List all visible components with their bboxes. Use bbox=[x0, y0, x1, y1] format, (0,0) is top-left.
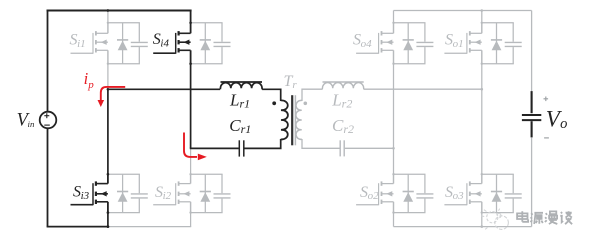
label Si2 bbox=[155, 184, 172, 202]
wire: left bus upper (Vin+ to top rail) bbox=[47, 11, 49, 112]
wire: Si3 cell bottom bus bbox=[108, 212, 140, 214]
wire: input bottom rail gray segment bbox=[108, 226, 191, 228]
wire: So2 cell bottom bus bbox=[394, 212, 426, 214]
watermark char 4 (tan) bbox=[560, 211, 572, 224]
label So2 bbox=[360, 184, 379, 202]
capacitor Cr1 bbox=[239, 140, 244, 156]
transistor Si2 bbox=[153, 174, 190, 213]
current arrow at node B (elbow down-right) bbox=[184, 133, 207, 161]
wire: Cr1 to node B bbox=[190, 147, 239, 149]
capacitor Cr2 bbox=[340, 140, 344, 156]
wire: Lr2 to leg So1/So3 bbox=[364, 88, 482, 90]
wire: Si1 drain feed bbox=[107, 11, 109, 23]
wire: So4 cell bottom bus bbox=[394, 63, 426, 65]
wire: Si1 cell bottom bus bbox=[108, 63, 140, 65]
wire: Si2 cell top bus bbox=[191, 173, 223, 175]
voltage source Vin bbox=[40, 112, 57, 129]
body diode of Si2 bbox=[200, 174, 211, 212]
parallel capacitor of So2 bbox=[416, 174, 433, 212]
wire: So1 cell top bus bbox=[482, 22, 514, 24]
wire: secondary winding bottom to Cr2 bbox=[302, 139, 340, 148]
wire: Si1 source to node A bbox=[107, 64, 109, 90]
wire: output leg B mid bbox=[481, 64, 483, 175]
parallel capacitor of So1 bbox=[505, 23, 522, 64]
wire: output cap to bottom rail bbox=[531, 137, 533, 226]
secondary polarity dot bbox=[304, 102, 308, 106]
parallel capacitor of So3 bbox=[505, 174, 522, 212]
wire: output top rail bbox=[394, 10, 532, 12]
label ip bbox=[84, 69, 95, 91]
transformer Tr secondary winding bbox=[296, 100, 302, 139]
junction output bottom rail / So3 bbox=[481, 225, 484, 228]
watermark char 3 (man) bbox=[545, 211, 557, 224]
body diode of Si3 bbox=[117, 174, 128, 212]
watermark char 2 (yuan) bbox=[530, 213, 543, 224]
wire: primary winding bottom corner bbox=[244, 139, 280, 148]
wire: Si2 cell bottom bus bbox=[191, 212, 223, 214]
junction dots input cells bbox=[107, 22, 192, 214]
wire: node B to Si2 drain bbox=[190, 148, 192, 174]
wire: input bottom rail black segment bbox=[47, 226, 109, 228]
transistor Si3 bbox=[71, 174, 108, 213]
transistor So2 bbox=[356, 174, 393, 213]
body diode of So2 bbox=[403, 174, 414, 212]
label So4 bbox=[353, 32, 372, 50]
wire: Si3 source to bottom rail bbox=[107, 213, 109, 227]
transistor So4 bbox=[356, 22, 393, 64]
label Si3 bbox=[73, 184, 90, 202]
body diode of So3 bbox=[491, 174, 502, 212]
label Si1 bbox=[70, 32, 86, 50]
parallel capacitor of Si2 bbox=[214, 174, 231, 212]
label Tr bbox=[284, 73, 298, 91]
transistor Si4 bbox=[153, 22, 190, 64]
wire: output bottom rail bbox=[394, 226, 532, 228]
body diode of Si1 bbox=[117, 23, 128, 64]
parallel capacitor of Si3 bbox=[131, 174, 148, 212]
transistor So3 bbox=[444, 174, 481, 213]
label Cr1 bbox=[229, 116, 251, 136]
body diode of So1 bbox=[491, 23, 502, 64]
wire: So2 cell top bus bbox=[394, 173, 426, 175]
wire: So1 cell bottom bus bbox=[482, 63, 514, 65]
wire: So2 source to bottom rail bbox=[393, 213, 395, 227]
parallel capacitor of Si1 bbox=[131, 23, 148, 64]
body diode of Si4 bbox=[200, 23, 211, 64]
current arrow ip (elbow down at node A) bbox=[98, 87, 126, 107]
label Si4 bbox=[153, 31, 170, 49]
wire: Lr1 to primary winding top bbox=[262, 89, 281, 101]
wire: So3 source to bottom rail bbox=[481, 213, 483, 227]
wire: secondary winding top to Lr2 bbox=[302, 89, 323, 101]
wire: So3 cell bottom bus bbox=[482, 212, 514, 214]
wire: input top rail (+) bbox=[47, 10, 192, 12]
wire: Si2 source to bottom rail bbox=[190, 213, 192, 227]
watermark char 1 (dian) bbox=[517, 211, 528, 222]
wire: output leg A mid bbox=[393, 64, 395, 175]
transformer core bar (primary side) bbox=[291, 95, 293, 145]
label Lr2 bbox=[331, 90, 352, 110]
junction at Si3 source / bottom rail bbox=[107, 225, 110, 228]
wire: Si4 cell top bus bbox=[191, 22, 223, 24]
transformer core bar (secondary side) bbox=[294, 95, 296, 145]
label + (output) bbox=[544, 97, 549, 102]
junction dots output cells bbox=[392, 22, 483, 214]
label Lr1 bbox=[229, 90, 250, 110]
inductor Lr1 bbox=[220, 82, 262, 89]
watermark logo bbox=[481, 209, 508, 230]
label So3 bbox=[445, 184, 464, 202]
label Cr2 bbox=[332, 116, 354, 136]
wire: Si3 cell top bus bbox=[108, 173, 140, 175]
wire: left bus lower (Vin- to bottom rail) bbox=[47, 128, 49, 226]
parallel capacitor of So4 bbox=[416, 23, 433, 64]
node A junction bbox=[107, 88, 110, 91]
wire: So4 drain feed bbox=[393, 11, 395, 23]
wire: top rail to output cap bbox=[531, 11, 533, 92]
parallel capacitor of Si4 bbox=[214, 23, 231, 64]
primary polarity dot bbox=[272, 101, 276, 105]
body diode of So4 bbox=[403, 23, 414, 64]
junction output top rail / So1 feed bbox=[481, 9, 484, 12]
wire: Si4 source to node B bbox=[190, 64, 192, 149]
wire: leg A node to Si3 drain bbox=[107, 89, 109, 175]
label - (output) bbox=[544, 137, 549, 139]
wire: So3 cell top bus bbox=[482, 173, 514, 175]
wire: Si4 drain feed bbox=[190, 10, 192, 23]
wire: Cr2 to leg So4/So2 bbox=[345, 147, 394, 149]
junction top rail / Si1 feed bbox=[107, 9, 110, 12]
label Vin bbox=[17, 110, 35, 130]
wire: So4 cell top bus bbox=[394, 22, 426, 24]
junction secondary top wire / output leg B bbox=[481, 88, 484, 91]
junction secondary bottom wire / output leg A bbox=[392, 147, 395, 150]
transformer Tr primary winding bbox=[281, 100, 288, 139]
wire: Si4 cell bottom bus bbox=[191, 63, 223, 65]
inductor Lr2 bbox=[322, 82, 364, 89]
output filter capacitor Co bbox=[522, 91, 541, 137]
label Vo bbox=[546, 106, 568, 132]
wire: Si1 cell top bus bbox=[108, 22, 140, 24]
wire: node A to Lr1 bbox=[108, 88, 220, 90]
wire: So1 drain feed bbox=[481, 11, 483, 23]
transistor So1 bbox=[444, 22, 481, 64]
label So1 bbox=[445, 32, 464, 50]
transistor Si1 bbox=[71, 22, 108, 64]
